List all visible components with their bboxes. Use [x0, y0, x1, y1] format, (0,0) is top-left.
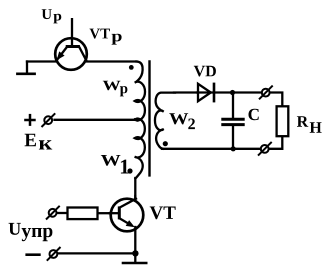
terminal output minus	[258, 142, 272, 156]
label Up	[42, 9, 52, 19]
terminal output plus	[259, 86, 273, 100]
wire VT emitter lead	[134, 227, 136, 253]
node C bottom junction	[231, 146, 236, 151]
label Uupr	[9, 223, 21, 235]
ground (left)	[16, 62, 36, 74]
transformer core	[148, 60, 150, 176]
label W1	[101, 155, 121, 166]
resistor R1	[68, 208, 98, 220]
wire VTp collector to Wp	[86, 60, 137, 62]
wire W2 bottom rail	[162, 148, 261, 150]
node W1 polarity dot	[127, 168, 132, 173]
wire VT collector lead	[134, 196, 136, 200]
wire RH bottom to terminal	[269, 138, 282, 149]
transistor VT	[110, 199, 144, 232]
node emitter junction	[132, 250, 138, 256]
wire terminal to resistor	[57, 212, 67, 214]
node Wp polarity dot	[129, 65, 134, 70]
terminal Uupr upper	[46, 206, 60, 220]
winding W2	[155, 93, 175, 149]
label RH	[297, 116, 308, 127]
wire VTp emitter to ground	[27, 60, 56, 62]
wire resistor to VT base	[99, 212, 111, 214]
wire Up lead	[71, 18, 73, 46]
winding W1	[135, 119, 145, 179]
node W2 polarity dot	[163, 141, 168, 146]
label VD	[194, 66, 216, 77]
capacitor C	[221, 93, 244, 149]
wire terminal to RH top	[270, 93, 282, 106]
node C top junction	[230, 90, 235, 95]
wire Uupr to emitter junction	[58, 252, 135, 254]
label minus	[25, 253, 40, 256]
label W2	[169, 113, 188, 124]
diode VD	[197, 83, 232, 103]
label VT	[150, 207, 176, 220]
winding Wp	[135, 62, 145, 121]
node tap junction	[135, 117, 139, 121]
label C	[249, 109, 259, 121]
label Ek	[25, 134, 36, 146]
terminal Ek	[42, 113, 56, 127]
transistor VTp	[55, 38, 87, 70]
label VTp	[90, 29, 110, 39]
wire diode to output terminal	[232, 91, 262, 93]
wire W1 to VT collector	[134, 178, 136, 200]
wire W2 top to diode	[174, 91, 197, 93]
terminal Uupr lower	[47, 247, 61, 261]
label Wp	[103, 81, 121, 90]
wire Ek to tap	[55, 119, 139, 121]
ground (bottom)	[122, 253, 148, 263]
resistor RH	[277, 106, 289, 136]
label +	[24, 114, 36, 126]
